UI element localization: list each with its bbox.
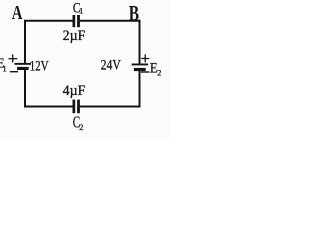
- battery E2 positive plate (long): [132, 64, 149, 66]
- label C2: [73, 113, 84, 132]
- label E2: [150, 61, 161, 78]
- wire top-right (C1 to B): [80, 20, 141, 22]
- wire top-left (A to C1): [24, 20, 73, 22]
- svg-text:12V: 12V: [30, 58, 49, 74]
- svg-text:1: 1: [79, 5, 83, 15]
- svg-text:1: 1: [3, 65, 7, 74]
- label E1 (clipped at left edge): [0, 57, 7, 74]
- battery E1 plus sign: [9, 54, 18, 62]
- svg-text:2: 2: [79, 122, 83, 132]
- svg-text:4µF: 4µF: [63, 83, 86, 99]
- battery E2 negative plate (short thick): [134, 68, 146, 71]
- label C1: [73, 1, 83, 17]
- wire right lower (E2 to bottom): [139, 71, 141, 108]
- battery E1 positive plate (long): [15, 63, 32, 65]
- svg-text:2µF: 2µF: [63, 28, 86, 44]
- capacitor C2 plates: [73, 100, 80, 114]
- wire bottom-right (C2 to right): [80, 106, 141, 108]
- svg-text:2: 2: [157, 68, 161, 78]
- wire left lower (E1 to bottom): [24, 70, 26, 108]
- wire right upper (B to E2): [139, 20, 141, 64]
- wire bottom-left (to C2): [24, 106, 73, 108]
- svg-text:B: B: [129, 1, 139, 26]
- battery E1 minus sign: [10, 71, 18, 73]
- battery E2 plus sign: [141, 54, 149, 62]
- wire left upper (A to E1): [24, 20, 26, 63]
- battery E1 negative plate (short thick): [17, 67, 29, 70]
- battery E2 minus sign: [141, 71, 150, 73]
- capacitor C1 plates: [73, 15, 80, 27]
- svg-text:A: A: [12, 2, 23, 24]
- svg-text:24V: 24V: [101, 58, 121, 74]
